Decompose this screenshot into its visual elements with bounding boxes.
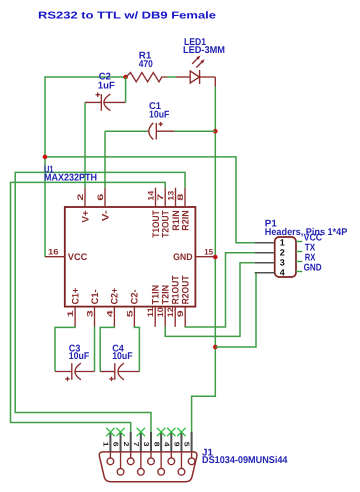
svg-text:7: 7 bbox=[156, 193, 165, 201]
node GND pin15 junction bbox=[213, 255, 218, 260]
wire R1 to LED bbox=[168, 76, 177, 78]
svg-text:1: 1 bbox=[66, 309, 75, 317]
capacitor C1 bbox=[105, 101, 215, 188]
svg-text:5: 5 bbox=[125, 309, 134, 317]
svg-text:C1+: C1+ bbox=[70, 287, 81, 304]
svg-text:12: 12 bbox=[166, 307, 175, 318]
J1 pin 9 bbox=[173, 428, 186, 475]
wire GND vertical bbox=[214, 77, 216, 87]
svg-text:8: 8 bbox=[176, 193, 185, 201]
svg-text:16: 16 bbox=[48, 247, 59, 256]
svg-text:R2IN: R2IN bbox=[180, 210, 191, 231]
J1 pin 3 bbox=[142, 432, 154, 465]
svg-text:GND: GND bbox=[304, 262, 322, 273]
pin 8 R2IN bbox=[176, 188, 191, 231]
svg-text:V+: V+ bbox=[80, 210, 91, 223]
svg-text:8: 8 bbox=[152, 442, 159, 447]
svg-text:V-: V- bbox=[100, 210, 111, 221]
svg-text:4: 4 bbox=[280, 267, 285, 277]
resistor R1 bbox=[126, 51, 168, 82]
node C1 junction bbox=[213, 129, 218, 134]
svg-text:R2OUT: R2OUT bbox=[181, 275, 192, 304]
svg-text:6: 6 bbox=[96, 193, 105, 201]
svg-text:5: 5 bbox=[183, 442, 190, 447]
svg-text:1: 1 bbox=[280, 237, 285, 247]
svg-text:10uF: 10uF bbox=[112, 351, 132, 362]
capacitor C3 bbox=[55, 343, 95, 381]
J1 pin 1 bbox=[102, 428, 115, 465]
svg-text:GND: GND bbox=[173, 252, 193, 263]
svg-text:C2-: C2- bbox=[130, 289, 141, 304]
svg-text:2: 2 bbox=[280, 247, 285, 257]
pin 4 C2+ bbox=[105, 287, 120, 326]
pin 5 C2- bbox=[125, 289, 140, 326]
pin 13 R1IN bbox=[167, 188, 182, 231]
capacitor C2 bbox=[85, 72, 126, 188]
svg-text:C1-: C1- bbox=[90, 289, 101, 304]
svg-text:VCC: VCC bbox=[68, 252, 88, 263]
svg-text:LED-3MM: LED-3MM bbox=[183, 45, 225, 56]
node GND P1 junction bbox=[213, 345, 218, 350]
pin 1 C1+ bbox=[66, 287, 81, 326]
node R1 junction bbox=[123, 75, 128, 80]
wire R2IN to DB9 pin3 (inner rail) bbox=[15, 172, 185, 432]
svg-text:9: 9 bbox=[176, 309, 185, 317]
svg-text:13: 13 bbox=[167, 190, 176, 201]
J1 pin 4 bbox=[162, 428, 175, 465]
pin 7 T2OUT bbox=[156, 188, 171, 238]
svg-text:3: 3 bbox=[280, 257, 285, 267]
wire C1- to C3 right bbox=[94, 326, 96, 371]
svg-text:10uF: 10uF bbox=[149, 110, 169, 121]
svg-text:C2+: C2+ bbox=[110, 287, 121, 304]
svg-text:2: 2 bbox=[122, 442, 129, 447]
svg-text:2: 2 bbox=[76, 193, 85, 201]
wire VCC top rail bbox=[45, 77, 126, 257]
svg-text:DS1034-09MUNSi44: DS1034-09MUNSi44 bbox=[202, 455, 288, 466]
J1 pin 5 bbox=[183, 432, 195, 465]
connector J1 DB9 body bbox=[99, 447, 288, 481]
node VCC junction bbox=[43, 155, 48, 160]
svg-text:9: 9 bbox=[173, 442, 180, 447]
wire C2- to C4 right bbox=[134, 326, 139, 371]
svg-text:4: 4 bbox=[162, 442, 169, 447]
svg-text:7: 7 bbox=[132, 442, 139, 447]
svg-text:15: 15 bbox=[204, 248, 214, 257]
wire C1+ to C3 left bbox=[55, 326, 75, 371]
pin 2 bbox=[255, 252, 275, 254]
pin 10 T2IN bbox=[156, 285, 171, 327]
svg-text:3: 3 bbox=[142, 442, 149, 447]
pin 14 T1OUT bbox=[147, 188, 162, 238]
J1 pin 7 bbox=[132, 428, 145, 475]
J1 pin 6 bbox=[112, 428, 125, 475]
svg-text:RS232 to TTL w/ DB9 Female: RS232 to TTL w/ DB9 Female bbox=[38, 10, 217, 21]
svg-text:1: 1 bbox=[102, 442, 109, 447]
wire VCC to P1 pin1 bbox=[45, 157, 255, 243]
wire T2OUT to DB9 pin2 (outer rail) bbox=[11, 182, 166, 432]
header P1 bbox=[255, 218, 348, 277]
svg-text:6: 6 bbox=[112, 442, 119, 447]
wire T2IN to P1 pin3 RX bbox=[165, 263, 255, 337]
wire R2OUT to P1 pin2 TX bbox=[185, 253, 255, 327]
svg-text:470: 470 bbox=[139, 59, 153, 70]
wire P1 pin4 GND bbox=[215, 273, 256, 347]
pin 4 bbox=[255, 272, 275, 274]
pin 15 GND bbox=[173, 248, 215, 264]
svg-text:1uF: 1uF bbox=[98, 80, 115, 91]
LED LED1 bbox=[176, 37, 225, 84]
svg-text:3: 3 bbox=[86, 309, 95, 317]
pin 9 R2OUT bbox=[176, 275, 191, 327]
pin 16 VCC bbox=[45, 247, 87, 263]
pin 3 bbox=[255, 262, 275, 264]
capacitor C4 bbox=[100, 343, 139, 381]
pin 2 V+ bbox=[76, 188, 91, 223]
pin 1 bbox=[255, 242, 275, 244]
svg-text:11: 11 bbox=[146, 307, 155, 318]
svg-text:MAX232PTH: MAX232PTH bbox=[44, 173, 97, 184]
J1 pin 2 bbox=[122, 432, 134, 465]
wire C2+ to C4 left bbox=[100, 326, 114, 371]
svg-text:14: 14 bbox=[147, 190, 156, 201]
J1 pin 8 bbox=[152, 428, 165, 475]
pin 12 R1OUT bbox=[166, 275, 181, 327]
pin 6 V- bbox=[96, 188, 111, 222]
svg-text:10: 10 bbox=[156, 307, 165, 318]
IC U1 MAX232PTH body bbox=[65, 207, 196, 307]
pin 11 T1IN bbox=[146, 285, 161, 327]
pin 3 C1- bbox=[86, 289, 101, 326]
svg-text:10uF: 10uF bbox=[69, 351, 89, 362]
svg-text:4: 4 bbox=[105, 309, 114, 317]
